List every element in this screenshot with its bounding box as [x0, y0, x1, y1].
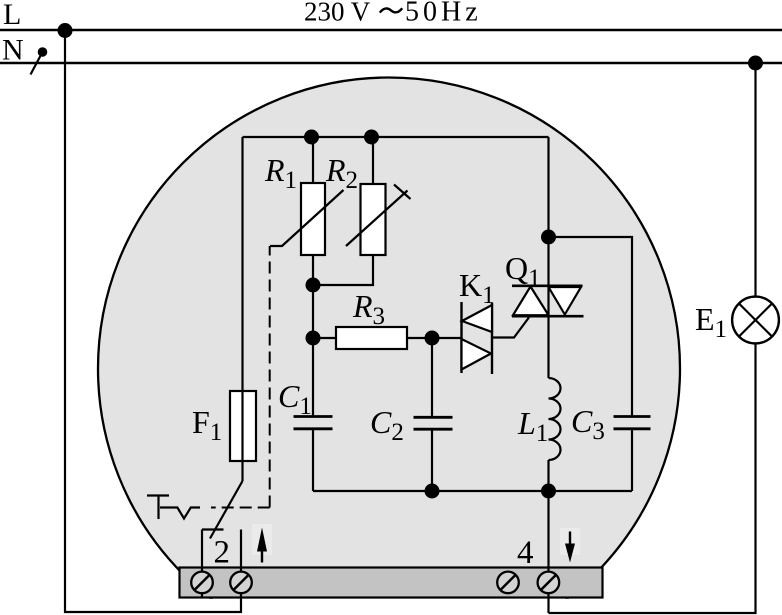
- svg-text:50Hz: 50Hz: [405, 0, 482, 28]
- svg-text:N: N: [2, 34, 24, 67]
- svg-text:4: 4: [517, 535, 534, 571]
- svg-text:L: L: [3, 0, 21, 31]
- svg-text:230 V: 230 V: [304, 0, 371, 27]
- svg-text:2: 2: [214, 535, 231, 571]
